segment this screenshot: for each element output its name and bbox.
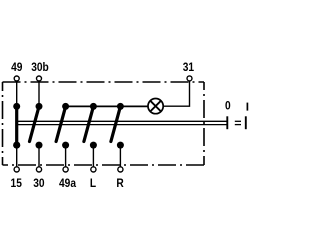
position 1 label (cut off at image edge) [246, 103, 248, 111]
svg-text:49a: 49a [59, 178, 77, 191]
svg-text:30: 30 [33, 178, 44, 191]
contact 5 (terminal R, open blade) [111, 103, 124, 172]
position 0 tick [226, 116, 228, 129]
svg-text:15: 15 [11, 178, 22, 191]
actuator bar (double line) [16, 121, 227, 124]
svg-text:0: 0 [225, 100, 231, 113]
indicator lamp [148, 99, 163, 114]
terminal 31 circle [187, 76, 192, 81]
svg-text:31: 31 [183, 61, 194, 74]
contact 3 (terminal 49a, open blade) [56, 103, 69, 172]
svg-text:30b: 30b [31, 61, 49, 74]
terminal 30b circle [37, 76, 42, 81]
contact 4 (terminal L, open blade) [84, 103, 97, 172]
svg-text:R: R [116, 178, 123, 191]
switch housing dash-dot box [3, 82, 205, 165]
svg-text:49: 49 [11, 61, 22, 74]
detent dashes [235, 121, 241, 124]
terminal 49 circle [14, 76, 19, 81]
wire 49 to contact 1 [16, 81, 18, 106]
wire 30b to contact 2 [38, 81, 40, 106]
top bus wire (contacts 3-5 to lamp) [66, 105, 148, 107]
svg-text:L: L [90, 178, 96, 191]
contact 1 (terminal 15, closed) [13, 103, 20, 172]
position 1 tick [245, 116, 247, 129]
contact 2 (terminal 30, open blade) [30, 103, 43, 172]
wire 31 to lamp [163, 81, 189, 106]
